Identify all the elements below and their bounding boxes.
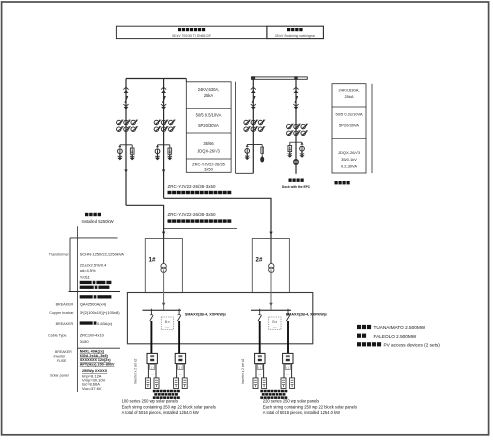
combiner label section 1 [153,390,180,399]
svg-text:...: ... [258,371,261,375]
cable arrow into transformer 1 [162,232,165,235]
svg-text:XXXXXXX 12x(2x): XXXXXXX 12x(2x) [80,358,112,362]
PV panel 2.2a [281,378,286,389]
inverter 1.1 [147,353,157,363]
busbar 35kV metering [251,76,307,79]
current transformer TA1 [117,120,139,132]
surge arrester F1b [130,145,135,161]
metering dashed box section 1 [161,317,173,330]
spec row: copper busbar [49,310,120,315]
spec row: breaker 1 [56,295,112,306]
surge arrester F2a [155,145,160,161]
disconnect switch QS1 [123,87,128,110]
inverter 2.2 output legs [284,364,292,378]
svg-text:Inverter x 2 set x2: Inverter x 2 set x2 [133,358,137,384]
note paragraph section 2 [263,399,357,416]
svg-text:3x50: 3x50 [204,167,213,172]
svg-text:5P20/30VA: 5P20/30VA [198,123,219,128]
svg-text:FALEOLO 2.500MW: FALEOLO 2.500MW [374,334,417,339]
svg-text:Solar panel: Solar panel [50,374,69,378]
svg-text:50/5 0.2s/10VA: 50/5 0.2s/10VA [335,112,362,117]
current transformer TA4 [287,124,309,136]
svg-text:3150: 3150 [80,339,90,344]
spec table frame [69,226,121,392]
svg-text:B:x: B:x [272,320,277,324]
svg-text:Transformer: Transformer [49,252,70,256]
metering dashed box section 2 [269,317,281,330]
current transformer TA3 [244,120,266,132]
label: metering cubicle [282,179,311,189]
svg-text:100 series 250 wp solar panels: 100 series 250 wp solar panels [122,399,178,404]
svg-text:( ): ( ) [151,365,154,369]
svg-text:22±2x2.5%/0.4: 22±2x2.5%/0.4 [80,262,107,267]
svg-text:0.2,30VA: 0.2,30VA [341,164,357,169]
transformer T2 symbol [269,239,274,273]
LV breaker drop 2.2 [286,309,289,354]
svg-text:50/5 0.5/10VA: 50/5 0.5/10VA [196,113,222,118]
current transformer TA2 [154,120,176,132]
cable direction arrow feeder 1 [124,170,127,173]
svg-text:SMAXX(2B-4, XXPKW)x: SMAXX(2B-4, XXPKW)x [286,313,328,317]
busbar label section 2 [286,313,328,317]
wire: feeder 1 jog to transformer 1 [126,205,164,238]
svg-text:Inverter x 2 set x2: Inverter x 2 set x2 [241,358,245,384]
PV panel 2.1b [262,378,267,389]
disconnect switch QS2 [161,87,166,110]
surge arrester F1a [117,145,122,161]
svg-text:0.63A(x): 0.63A(x) [97,321,113,326]
wire: transformer 1 LV lead [162,270,165,310]
feeder 4 main wire [295,79,297,174]
svg-text:2#: 2# [256,257,263,264]
arrester branch bar feeder 4 [290,141,302,143]
svg-text:Cable Type: Cable Type [48,334,67,338]
svg-text:( ): ( ) [258,365,261,369]
svg-text:Dock with the EPC: Dock with the EPC [282,185,311,189]
svg-text:JDQX-26/√3: JDQX-26/√3 [197,149,220,154]
svg-text:250Wp XXXXX: 250Wp XXXXX [82,369,108,373]
svg-text:BREAKER: BREAKER [56,302,74,306]
surge arrester F2b [167,145,172,161]
svg-text:25kA: 25kA [204,93,214,98]
svg-text:...: ... [286,371,289,375]
cable arrow into transformer 2 [269,232,272,235]
svg-text:35/0.1kV: 35/0.1kV [341,157,357,162]
wire: left group drop to equipment table [185,79,187,83]
svg-text:...: ... [179,371,182,375]
svg-text:SCHN-1250/22,1250kVA: SCHN-1250/22,1250kVA [80,251,125,256]
feeder 1 main wire [125,79,127,206]
transformer T1 box [145,239,182,293]
spec row: transformer [49,251,124,289]
svg-text:B:x: B:x [165,320,170,324]
feeder 3 main wire [252,79,254,173]
svg-text:Copper busbar: Copper busbar [49,311,74,315]
cable terminal feeder 3 [260,145,264,163]
spec row: solar panel [50,369,108,391]
svg-text:APY(Hxx) 200~800V: APY(Hxx) 200~800V [80,363,115,367]
LV switchgear box [127,293,312,344]
svg-text:QA42500A(x4): QA42500A(x4) [80,301,107,306]
svg-text:ZRC-YJV22-26/35-3x50: ZRC-YJV22-26/35-3x50 [168,184,217,189]
svg-text:Each string containing 250 wp: Each string containing 250 wp 22 block s… [122,404,216,409]
voltage transformer TV [293,159,298,164]
spec row: cable type [48,333,105,344]
LV busbar section 1 [143,309,182,311]
note paragraph section 1 [122,399,216,416]
disconnect switch QS4 [293,87,298,110]
svg-text:25kA: 25kA [344,94,353,99]
svg-text:24KV,630A,: 24KV,630A, [339,88,360,93]
svg-text:A total of 5018 pieces, instal: A total of 5018 pieces, installed 1254.0… [263,410,340,415]
cable direction arrow feeder 2 [162,170,165,173]
svg-text:SMAXX(2B-4, XXPKW)x: SMAXX(2B-4, XXPKW)x [185,313,227,317]
PV panel 2.1a [253,378,258,389]
svg-text:( ): ( ) [179,365,182,369]
arrester branch bar feeder 2 [158,144,170,146]
surge arrester F3a [245,145,250,161]
inverter 2.1 output legs [256,364,264,378]
svg-text:ZRC-YJV22-26/35-3x50: ZRC-YJV22-26/35-3x50 [168,212,217,217]
svg-text:Installed 5250kW: Installed 5250kW [81,219,113,224]
svg-text:BREAKER: BREAKER [56,322,74,326]
LV breaker drop 1.2 [178,309,181,354]
svg-text:220 series 250 wp solar panels: 220 series 250 wp solar panels [263,399,319,404]
svg-text:1#: 1# [149,257,156,264]
arrester branch bar feeder 3 [247,144,262,146]
svg-text:...: ... [151,371,154,375]
surge arrester F4b [299,142,304,158]
svg-text:5P20/30VA: 5P20/30VA [339,123,359,128]
vertical label inverter x2 section 1 [133,358,137,384]
inverter 1.2 output legs [177,364,185,378]
transformer T1 symbol [161,239,166,273]
inverter 1.2 [175,353,185,363]
svg-text:Inverter: Inverter [54,354,67,358]
inverter 2.2 [283,353,293,363]
svg-text:35 kV 700/35 TI DN69-DF: 35 kV 700/35 TI DN69-DF [172,34,211,38]
svg-text:A total of 5016 pieces, instal: A total of 5016 pieces, installed 1254.0… [122,410,199,415]
svg-text:BREAKER: BREAKER [55,350,72,354]
svg-text:35/66: 35/66 [203,141,214,146]
arrester branch bar feeder 1 [120,144,132,146]
wire: left group top bus [126,78,186,80]
disconnect switch QS3 [251,87,256,110]
svg-text:3*[2(100x10)]+(100x8): 3*[2(100x10)]+(100x8) [80,310,121,315]
LV busbar section 2 [251,309,291,311]
equipment table left group [186,82,253,174]
busbar label section 1 [185,313,227,317]
PV panel 1.1a [145,378,150,389]
wire: transformer 2 LV lead [269,270,272,310]
inverter 2.1 [255,353,265,363]
svg-text:Each string containing 250 wp: Each string containing 250 wp 22 block s… [263,404,357,409]
svg-text:TUANAIMATO 2.500MW: TUANAIMATO 2.500MW [374,325,426,330]
equipment table right group [332,84,372,173]
cable label B: ZRC-YJV22 to transformer 2 [164,212,237,229]
spec table title [81,213,113,224]
svg-text:JDQX-26/√3: JDQX-26/√3 [338,150,361,155]
svg-text:( ): ( ) [286,365,289,369]
LV breaker drop 2.1 [258,309,261,354]
svg-text:24KV,630A,: 24KV,630A, [198,87,219,92]
header title box: 35kV switchgear room [116,26,267,38]
summary text block [357,325,440,348]
header title box: 35kV metering switchgear [267,26,324,38]
wire: feeder 2 jog to transformer 2 [164,198,271,238]
spec row: breaker 2 [56,321,113,326]
svg-text:FUSE: FUSE [57,359,67,363]
PV panel 1.1b [154,378,159,389]
spec row: breaker inverter fuse [54,350,115,367]
PV panel 1.2a [174,378,179,389]
LV breaker drop 1.1 [150,309,153,354]
PV panel 2.2b [290,378,295,389]
transformer T2 box [252,239,289,293]
svg-text:Y/d11: Y/d11 [80,274,91,279]
svg-text:35 kV Switching switchgear: 35 kV Switching switchgear [275,34,316,38]
feeder 2 main wire [163,79,165,199]
svg-text:ZRC1W-4x10: ZRC1W-4x10 [80,333,105,338]
svg-text:PV access devices (2 sets): PV access devices (2 sets) [384,342,441,347]
svg-text:ud=4.5%: ud=4.5% [80,268,96,273]
cable label A: ZRC-YJV22 to transformer 1 [168,184,232,194]
svg-text:Voc=37.6V: Voc=37.6V [82,386,102,391]
PV panel 1.2b [182,378,187,389]
surge arrester F4a [287,142,292,158]
vertical label inverter x2 section 2 [241,358,245,384]
inverter 1.1 output legs [148,364,156,378]
label: HV metering cabinet [335,181,350,184]
combiner label section 2 [260,390,287,399]
